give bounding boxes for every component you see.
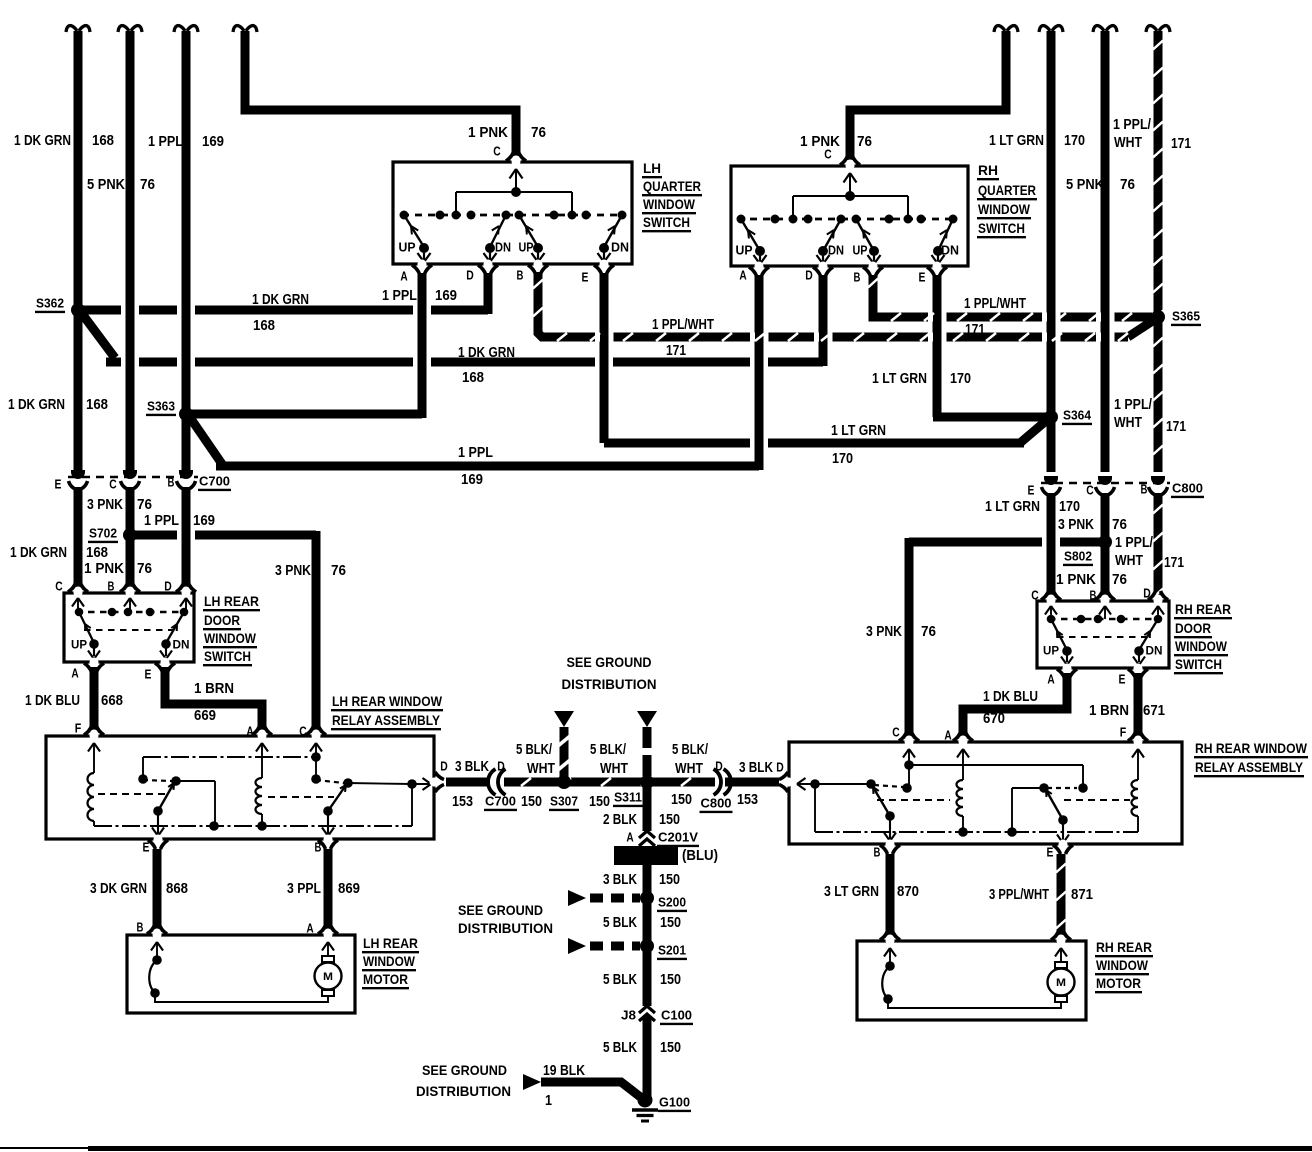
- svg-text:3 LT GRN: 3 LT GRN: [824, 884, 879, 900]
- svg-text:1 BRN: 1 BRN: [194, 681, 234, 697]
- svg-text:WINDOW: WINDOW: [1175, 638, 1228, 654]
- inline connector at C700: [490, 776, 504, 788]
- svg-text:SWITCH: SWITCH: [204, 648, 251, 664]
- RH relay bottom link line: [815, 831, 1138, 833]
- LH door switch DN contact to E: [166, 612, 184, 643]
- RH motor M symbol: [1055, 996, 1067, 1002]
- svg-text:B: B: [168, 475, 175, 490]
- RH relay switch 1 (to B): [866, 779, 876, 789]
- wire 3 PPL/WHT 871 RH relay E to motor (hatched): [1057, 854, 1066, 938]
- svg-text:B: B: [874, 845, 881, 860]
- svg-text:DOOR: DOOR: [204, 612, 240, 628]
- RH rear window motor box: [857, 941, 1086, 1020]
- svg-text:76: 76: [137, 561, 152, 577]
- LH quarter switch terminal C fork: [511, 156, 520, 167]
- svg-text:DISTRIBUTION: DISTRIBUTION: [562, 676, 657, 692]
- LH quarter switch UP contact to B: [519, 215, 538, 247]
- svg-text:S362: S362: [36, 296, 64, 311]
- svg-text:669: 669: [194, 708, 216, 724]
- svg-text:B: B: [517, 268, 524, 283]
- svg-text:3 PNK: 3 PNK: [1058, 517, 1094, 533]
- svg-text:1 PPL: 1 PPL: [458, 445, 493, 461]
- svg-text:DN: DN: [611, 241, 629, 255]
- svg-text:LH REAR: LH REAR: [204, 593, 259, 609]
- svg-text:1 DK BLU: 1 DK BLU: [25, 693, 80, 709]
- svg-text:UP: UP: [736, 244, 753, 258]
- wires below C700 to LH rear door switch: [74, 487, 83, 590]
- connector C201V: [639, 831, 655, 838]
- svg-text:169: 169: [461, 472, 483, 488]
- svg-text:150: 150: [660, 972, 681, 988]
- svg-text:LH REAR: LH REAR: [363, 935, 418, 951]
- svg-text:871: 871: [1071, 887, 1093, 903]
- svg-text:171: 171: [1164, 555, 1184, 571]
- svg-text:QUARTER: QUARTER: [643, 178, 701, 194]
- wire 5 BLK 150 to G100: [643, 1016, 652, 1100]
- svg-text:1 PPL/: 1 PPL/: [1113, 117, 1151, 133]
- svg-text:DN: DN: [1146, 643, 1163, 657]
- svg-text:1 PPL/WHT: 1 PPL/WHT: [964, 296, 1026, 312]
- svg-text:DN: DN: [173, 637, 190, 651]
- svg-text:3 BLK: 3 BLK: [603, 872, 637, 888]
- wire 2 BLK 150 below S311: [643, 782, 652, 831]
- svg-text:1 LT GRN: 1 LT GRN: [989, 133, 1044, 149]
- wire 1 PNK 76 feed to LH quarter switch C: [233, 26, 257, 32]
- splice S307: [557, 775, 571, 789]
- svg-text:RH REAR: RH REAR: [1175, 601, 1231, 617]
- wire 5 PNK 76 (right feed): [1093, 26, 1117, 32]
- svg-text:E: E: [582, 270, 589, 285]
- splice S363: [179, 407, 193, 421]
- svg-text:868: 868: [166, 881, 188, 897]
- RH quarter switch DN contact to E: [938, 219, 953, 251]
- svg-text:150: 150: [671, 792, 692, 808]
- RH quarter switch terminal C fork: [845, 160, 854, 171]
- svg-text:D: D: [440, 759, 448, 774]
- svg-text:RELAY ASSEMBLY: RELAY ASSEMBLY: [332, 712, 441, 728]
- RH rear door window switch box: [1037, 601, 1169, 668]
- svg-text:76: 76: [857, 134, 872, 150]
- svg-text:SWITCH: SWITCH: [1175, 656, 1222, 672]
- svg-text:E: E: [919, 270, 926, 285]
- connector C800 (dashed line): [1041, 482, 1170, 484]
- svg-text:UP: UP: [71, 637, 87, 651]
- wires below C800 to RH rear door switch: [1047, 493, 1056, 598]
- svg-text:E: E: [1119, 672, 1126, 687]
- svg-text:5 BLK/: 5 BLK/: [672, 742, 708, 758]
- LH relay terminal fork D (right): [430, 777, 441, 786]
- svg-text:F: F: [1120, 725, 1127, 740]
- svg-text:D: D: [805, 268, 813, 283]
- LH quarter switch contact bus (dashed): [402, 214, 624, 217]
- svg-text:1 PNK: 1 PNK: [84, 561, 124, 577]
- svg-text:DISTRIBUTION: DISTRIBUTION: [416, 1083, 511, 1099]
- LH relay coil from A: [256, 743, 262, 752]
- svg-text:1 PPL: 1 PPL: [144, 513, 179, 529]
- svg-text:A: A: [1047, 672, 1055, 687]
- svg-text:SEE GROUND: SEE GROUND: [567, 654, 652, 670]
- wire 3 PPL 869 LH relay B to motor A: [324, 849, 333, 932]
- svg-text:5 BLK: 5 BLK: [603, 972, 637, 988]
- svg-text:1 DK BLU: 1 DK BLU: [983, 689, 1038, 705]
- svg-text:E: E: [55, 477, 62, 492]
- RH door switch DN contact to E: [1139, 619, 1158, 650]
- svg-text:DN: DN: [828, 244, 844, 258]
- svg-text:S311: S311: [614, 790, 642, 805]
- LH quarter switch UP contact to A: [404, 215, 424, 247]
- svg-text:170: 170: [1059, 499, 1080, 515]
- wire 3 BLK 153 to RH relay D: [725, 778, 779, 787]
- svg-text:LH: LH: [643, 160, 661, 176]
- RH relay coil from F: [1132, 749, 1138, 758]
- LH rear window relay assembly box: [46, 736, 434, 839]
- RH relay terminal forks C A F (top): [904, 736, 913, 747]
- svg-text:WHT: WHT: [527, 761, 555, 777]
- svg-text:76: 76: [1112, 572, 1127, 588]
- wire 3 DK GRN 868 LH relay E to motor B: [153, 849, 162, 932]
- wire 1 DK GRN 168 from S362 to LH quarter D: [78, 306, 121, 315]
- svg-text:19 BLK: 19 BLK: [543, 1063, 585, 1079]
- LH relay switch 1 (to E): [138, 774, 148, 784]
- svg-text:RELAY ASSEMBLY: RELAY ASSEMBLY: [1195, 759, 1304, 775]
- svg-text:WHT: WHT: [675, 761, 703, 777]
- splice S311: [640, 775, 654, 789]
- RH relay coil link dashed: [877, 799, 950, 801]
- svg-text:3 DK GRN: 3 DK GRN: [90, 881, 147, 897]
- svg-text:J8: J8: [621, 1008, 636, 1023]
- svg-text:150: 150: [659, 812, 680, 828]
- svg-text:76: 76: [140, 177, 155, 193]
- svg-text:WHT: WHT: [600, 761, 628, 777]
- LH motor M symbol: [322, 990, 334, 996]
- RH relay coil from A: [957, 749, 963, 758]
- svg-text:5 PNK: 5 PNK: [87, 177, 125, 193]
- svg-text:168: 168: [253, 318, 275, 334]
- wire 5 BLK/WHT to S311 (dashed): [643, 727, 652, 776]
- svg-text:1 PNK: 1 PNK: [1056, 572, 1096, 588]
- svg-text:3 PNK: 3 PNK: [87, 497, 123, 513]
- svg-text:1 PPL/: 1 PPL/: [1115, 535, 1153, 551]
- RH relay coil 2 link dashed: [1064, 799, 1130, 801]
- svg-text:E: E: [1028, 483, 1035, 498]
- svg-text:1 PPL: 1 PPL: [382, 288, 417, 304]
- svg-text:S200: S200: [658, 895, 686, 910]
- LH relay coil link dashed: [98, 793, 168, 795]
- svg-text:B: B: [315, 840, 322, 855]
- wire 3 BLK 150 to S200: [643, 865, 652, 898]
- RH relay input from D: [783, 777, 794, 786]
- svg-text:3 BLK: 3 BLK: [739, 760, 773, 776]
- svg-text:3 PNK: 3 PNK: [275, 563, 311, 579]
- LH door switch UP contact to A: [79, 612, 94, 643]
- svg-text:S201: S201: [658, 943, 686, 958]
- svg-text:150: 150: [659, 872, 680, 888]
- svg-text:A: A: [626, 830, 634, 845]
- wire 1 PPL 169 from S363 to RH quarter A: [189, 416, 222, 464]
- svg-text:1 LT GRN: 1 LT GRN: [872, 371, 927, 387]
- svg-text:A: A: [246, 724, 254, 739]
- svg-text:169: 169: [202, 134, 224, 150]
- LH quarter switch terminal forks A D B E: [417, 260, 426, 271]
- svg-text:M: M: [323, 971, 333, 983]
- svg-text:WHT: WHT: [1115, 553, 1143, 569]
- svg-text:F: F: [75, 721, 82, 736]
- RH quarter switch UP contact to B: [856, 219, 874, 251]
- splice S364: [1044, 410, 1058, 424]
- svg-text:3 PNK: 3 PNK: [866, 624, 902, 640]
- svg-text:WINDOW: WINDOW: [1096, 957, 1149, 973]
- svg-text:1 LT GRN: 1 LT GRN: [985, 499, 1040, 515]
- svg-text:WHT: WHT: [1114, 135, 1142, 151]
- svg-text:169: 169: [193, 513, 215, 529]
- svg-text:76: 76: [1120, 177, 1135, 193]
- svg-text:UP: UP: [519, 241, 534, 255]
- splice S365: [1151, 310, 1165, 324]
- ground distribution arrow to S200: [568, 890, 586, 906]
- svg-text:1 PNK: 1 PNK: [468, 125, 508, 141]
- svg-text:168: 168: [86, 545, 108, 561]
- svg-text:S307: S307: [550, 794, 578, 809]
- ground distribution arrow to S201: [568, 938, 586, 954]
- RH relay control line from C: [903, 749, 909, 758]
- ground distribution arrow S311: [637, 711, 657, 727]
- svg-text:MOTOR: MOTOR: [1096, 975, 1141, 991]
- svg-text:C700: C700: [485, 794, 516, 809]
- LH motor brush switch: [151, 942, 157, 951]
- wire 1 PNK 76 feed to RH quarter switch C: [994, 26, 1018, 32]
- svg-text:76: 76: [531, 125, 546, 141]
- svg-text:C: C: [109, 477, 117, 492]
- svg-text:S802: S802: [1064, 549, 1092, 564]
- svg-text:C: C: [55, 579, 63, 594]
- wire 1 PPL/WHT 171 (right feed, hatched): [1146, 26, 1170, 32]
- svg-text:B: B: [108, 579, 115, 594]
- splice S362: [71, 303, 85, 317]
- RH door switch terminal forks A E: [1062, 664, 1071, 675]
- svg-text:1 DK GRN: 1 DK GRN: [14, 133, 71, 149]
- svg-text:5 BLK/: 5 BLK/: [590, 742, 626, 758]
- LH door switch internals: [72, 598, 78, 607]
- svg-text:S702: S702: [89, 526, 117, 541]
- svg-text:670: 670: [983, 711, 1005, 727]
- svg-text:3 BLK: 3 BLK: [455, 759, 489, 775]
- RH relay terminal forks B E (bottom): [885, 840, 894, 851]
- svg-text:D: D: [497, 759, 505, 774]
- svg-text:1 DK GRN: 1 DK GRN: [458, 345, 515, 361]
- svg-text:RH REAR: RH REAR: [1096, 939, 1152, 955]
- wire 1 PPL 169 (left feed, circuit 169): [174, 26, 198, 32]
- LH rear window motor box: [127, 935, 355, 1013]
- svg-text:D: D: [466, 268, 474, 283]
- svg-text:C100: C100: [661, 1008, 692, 1023]
- wire 1 BRN 671 RH door E to relay F: [1134, 673, 1143, 739]
- LH relay switch 2 (to B): [311, 774, 321, 784]
- svg-text:WINDOW: WINDOW: [978, 201, 1031, 217]
- svg-text:1 PPL/WHT: 1 PPL/WHT: [652, 317, 714, 333]
- wire 1 LT GRN 170 from RH quarter E to S364: [933, 275, 942, 417]
- svg-text:153: 153: [737, 792, 758, 808]
- splice S201: [640, 939, 654, 953]
- LH door switch terminal forks A E: [89, 658, 98, 669]
- svg-text:SEE GROUND: SEE GROUND: [422, 1062, 507, 1078]
- svg-text:WINDOW: WINDOW: [643, 196, 696, 212]
- svg-text:A: A: [739, 268, 747, 283]
- LH door switch terminal forks C B D: [73, 587, 82, 598]
- wire 1 PPL/WHT 171 from LH quarter B to S365 (hatched): [538, 272, 1128, 337]
- svg-text:C: C: [892, 725, 900, 740]
- RH relay switch 2 (to E): [1039, 783, 1049, 793]
- svg-text:C201V: C201V: [658, 830, 698, 845]
- wire 1 DK GRN 168 (left feed, circuit 168): [66, 26, 90, 32]
- ground G100: [638, 1093, 653, 1108]
- svg-text:3 PPL/WHT: 3 PPL/WHT: [989, 887, 1049, 903]
- svg-text:1 PPL/: 1 PPL/: [1114, 397, 1152, 413]
- RH quarter switch terminal forks A D B E: [754, 262, 763, 273]
- svg-text:168: 168: [86, 397, 108, 413]
- svg-text:MOTOR: MOTOR: [363, 971, 408, 987]
- connector C100: [639, 1006, 655, 1013]
- svg-text:C: C: [1086, 483, 1094, 498]
- wire 3 LT GRN 870 RH relay B to motor: [886, 854, 895, 938]
- svg-text:D: D: [1143, 586, 1151, 601]
- svg-text:150: 150: [660, 1040, 681, 1056]
- svg-text:DN: DN: [495, 241, 511, 255]
- wire 5 BLK/WHT 150 run (hatched): [494, 778, 719, 787]
- LH relay bottom link line: [94, 825, 412, 827]
- svg-text:SEE GROUND: SEE GROUND: [458, 902, 543, 918]
- svg-text:E: E: [143, 840, 150, 855]
- svg-text:S364: S364: [1063, 408, 1092, 423]
- wire 1 BRN 669 LH door E to relay A: [165, 667, 262, 733]
- svg-text:RH REAR WINDOW: RH REAR WINDOW: [1195, 740, 1308, 756]
- RH motor terminal forks: [885, 935, 894, 946]
- wire 1 PPL 169 from S363 to LH quarter A: [186, 410, 422, 419]
- svg-text:B: B: [1141, 482, 1148, 497]
- wire 5 PNK 76 (left feed, circuit 76): [118, 26, 142, 32]
- svg-text:C: C: [299, 724, 307, 739]
- wire 5 BLK 150 to C100: [643, 946, 652, 1006]
- svg-text:DN: DN: [941, 244, 959, 258]
- svg-text:2 BLK: 2 BLK: [603, 812, 637, 828]
- svg-text:5 PNK: 5 PNK: [1066, 177, 1104, 193]
- svg-text:WINDOW: WINDOW: [363, 953, 416, 969]
- svg-text:76: 76: [331, 563, 346, 579]
- svg-text:DISTRIBUTION: DISTRIBUTION: [458, 920, 553, 936]
- svg-text:5 BLK: 5 BLK: [603, 1040, 637, 1056]
- svg-text:QUARTER: QUARTER: [978, 182, 1036, 198]
- svg-text:1 PPL: 1 PPL: [148, 134, 183, 150]
- svg-text:A: A: [71, 666, 79, 681]
- LH quarter switch internal feed: [510, 169, 517, 179]
- wire 1 DK BLU 670 RH door A to relay A: [963, 673, 1067, 739]
- svg-text:5 BLK/: 5 BLK/: [516, 742, 552, 758]
- svg-text:668: 668: [101, 693, 123, 709]
- wire 3 BLK 153 from LH relay D: [446, 778, 494, 787]
- LH relay coil from F: [88, 743, 94, 752]
- svg-text:G100: G100: [659, 1095, 690, 1110]
- svg-text:870: 870: [897, 884, 919, 900]
- svg-text:1 DK GRN: 1 DK GRN: [10, 545, 67, 561]
- svg-text:171: 171: [1171, 136, 1191, 152]
- svg-text:76: 76: [921, 624, 936, 640]
- svg-text:1 LT GRN: 1 LT GRN: [831, 423, 886, 439]
- RH door switch internals: [1045, 606, 1051, 615]
- svg-text:170: 170: [1064, 133, 1085, 149]
- RH quarter switch contact bus (dashed): [737, 218, 958, 221]
- svg-text:671: 671: [1143, 703, 1165, 719]
- svg-text:168: 168: [92, 133, 114, 149]
- svg-text:153: 153: [452, 794, 473, 810]
- svg-text:D: D: [776, 760, 784, 775]
- svg-text:76: 76: [137, 497, 152, 513]
- svg-text:E: E: [145, 667, 152, 682]
- svg-text:WINDOW: WINDOW: [204, 630, 257, 646]
- svg-text:1 DK GRN: 1 DK GRN: [8, 397, 65, 413]
- svg-text:169: 169: [435, 288, 457, 304]
- svg-text:1 PNK: 1 PNK: [800, 134, 840, 150]
- svg-text:S363: S363: [147, 399, 175, 414]
- svg-text:171: 171: [1166, 419, 1186, 435]
- svg-text:S365: S365: [1172, 309, 1200, 324]
- svg-text:76: 76: [1112, 517, 1127, 533]
- wire 5 BLK/WHT to S307 (hatched): [560, 727, 569, 778]
- svg-text:SWITCH: SWITCH: [978, 220, 1025, 236]
- RH door switch terminal forks C B D: [1046, 595, 1055, 606]
- wire 1 LT GRN 170 from LH quarter E to S364: [600, 273, 609, 443]
- svg-text:171: 171: [666, 343, 686, 359]
- connector C700 (dashed line): [68, 476, 198, 478]
- RH motor brush switch: [884, 948, 890, 957]
- inline connector at C800: [715, 776, 729, 788]
- svg-text:150: 150: [660, 915, 681, 931]
- LH relay control line from C: [310, 743, 316, 752]
- RH quarter switch UP contact to A: [741, 219, 760, 251]
- splice S200: [640, 891, 654, 905]
- svg-text:150: 150: [521, 794, 542, 810]
- connector (BLU) block: [614, 846, 678, 865]
- wire 1 DK GRN 168 from S362 to RH quarter D: [80, 311, 115, 358]
- svg-text:171: 171: [965, 322, 985, 338]
- svg-text:C: C: [1031, 588, 1039, 603]
- RH door switch UP contact to A: [1051, 619, 1067, 650]
- svg-text:150: 150: [589, 794, 610, 810]
- svg-text:1 BRN: 1 BRN: [1089, 703, 1129, 719]
- svg-text:170: 170: [950, 371, 971, 387]
- LH quarter switch DN contact to E: [604, 215, 622, 247]
- svg-text:1: 1: [545, 1093, 552, 1109]
- svg-text:C: C: [824, 147, 832, 162]
- svg-text:168: 168: [462, 370, 484, 386]
- RH quarter switch internal feed: [844, 173, 851, 183]
- LH motor terminal forks B A: [152, 929, 161, 940]
- svg-text:3 PPL: 3 PPL: [287, 881, 321, 897]
- svg-text:170: 170: [832, 451, 853, 467]
- svg-text:UP: UP: [1043, 643, 1059, 657]
- svg-text:5 BLK: 5 BLK: [603, 915, 637, 931]
- bottom border rule: [0, 1147, 88, 1149]
- svg-text:A: A: [944, 728, 952, 743]
- svg-text:UP: UP: [399, 241, 416, 255]
- LH rear door window switch box: [64, 593, 194, 662]
- svg-text:C: C: [493, 144, 501, 159]
- ground distribution arrow 19 BLK 1: [523, 1074, 541, 1090]
- svg-text:WHT: WHT: [1114, 415, 1142, 431]
- svg-text:LH REAR WINDOW: LH REAR WINDOW: [332, 693, 443, 709]
- svg-text:B: B: [137, 920, 144, 935]
- LH quarter window switch box: [393, 162, 632, 264]
- svg-text:M: M: [1056, 977, 1066, 989]
- wire 1 LT GRN 170 (right feed, circuit 170): [1039, 26, 1063, 32]
